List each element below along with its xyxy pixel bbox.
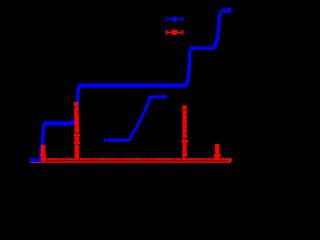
red DOS lower cap line (30, 161, 232, 163)
blue rise C (185, 50, 191, 86)
blue flat C (78, 83, 186, 87)
red peak 2 (74, 103, 80, 161)
blue rise D (213, 13, 221, 49)
red peak 4 (213, 144, 221, 160)
blue flat D (190, 47, 215, 50)
legend blue errorbar entry (166, 17, 183, 22)
blue flat E top step (220, 8, 232, 12)
legend red errorbar entry (166, 30, 183, 35)
red baseline end marker (229, 158, 232, 161)
red peak 3 (181, 106, 188, 160)
blue IDOS staircase flat A dotted (30, 158, 42, 162)
blue second curve (lower band) (105, 95, 166, 143)
red peak 1 (40, 145, 46, 160)
blue rise B (72, 87, 79, 124)
blue flat B (44, 121, 73, 125)
blue rise A (40, 124, 46, 160)
red DOS baseline marker row (45, 158, 231, 161)
